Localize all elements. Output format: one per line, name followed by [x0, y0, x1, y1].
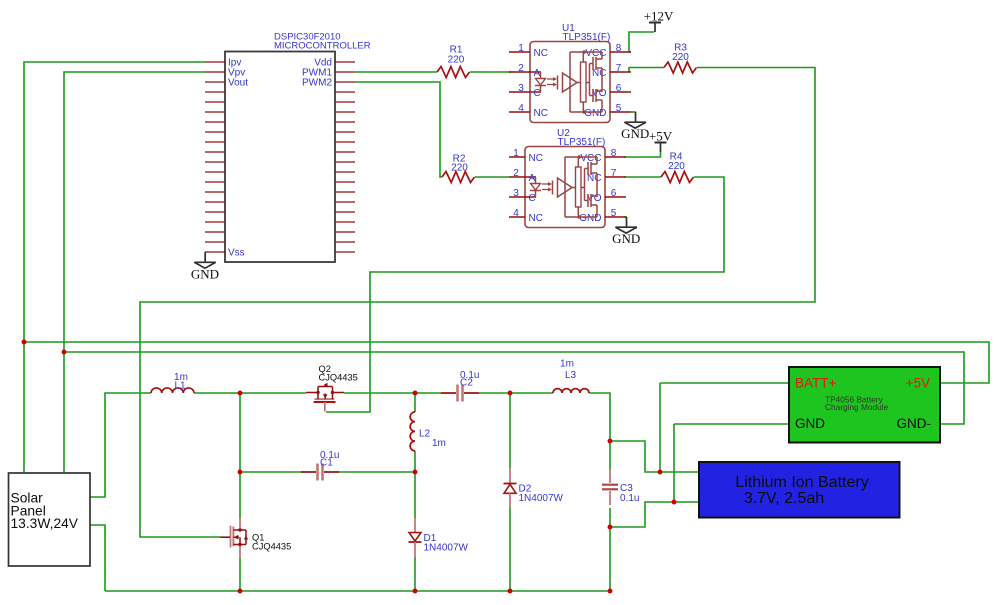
svg-text:L3: L3 [565, 370, 577, 381]
svg-text:C: C [529, 193, 536, 204]
optocoupler U1 TLP351(F) body [530, 42, 610, 123]
+12V power symbol [649, 22, 661, 24]
wire U1 ground stem [635, 112, 637, 122]
wire R1 to U1 pin 2 [470, 71, 511, 73]
wire PWM2 down to R2 [355, 82, 442, 177]
svg-text:1m: 1m [560, 359, 574, 370]
wire GND- net from node at x64 to charging module GND- pin [64, 352, 964, 424]
optocoupler U2 TLP351(F) body [525, 147, 605, 228]
wire L1 to Q2 drain [194, 392, 306, 394]
junction D2 on ground rail [508, 589, 513, 594]
svg-text:6: 6 [616, 83, 622, 94]
wire Ipv to solar panel left column [24, 62, 205, 473]
svg-text:1N4007W: 1N4007W [519, 493, 564, 504]
wire charging module GND down to battery minus node [673, 424, 675, 502]
wire U2 pin 7 to R4 [624, 176, 661, 178]
svg-text:CJQ4435: CJQ4435 [252, 542, 291, 552]
wire U2 pin 5 to ground [624, 216, 627, 218]
U2 left pins 1-4 [509, 157, 536, 217]
U1 right pins 8-5 [610, 52, 631, 112]
wire battery minus branch [610, 502, 700, 527]
inductor L3 [553, 389, 589, 393]
wire GND pin of module [674, 423, 789, 425]
wire U2 pin 8 to +5V symbol [624, 152, 661, 158]
junction Q1 source on ground rail [238, 589, 243, 594]
U2 internal LED [535, 177, 537, 184]
diode D1 [414, 518, 416, 533]
svg-text:1: 1 [513, 148, 519, 159]
resistor R4 [661, 172, 694, 183]
svg-text:C: C [534, 88, 541, 99]
wire R2 to U2 pin 2 [475, 176, 509, 178]
junction node GND- column [62, 350, 67, 355]
svg-text:2: 2 [518, 63, 524, 74]
wire L3 to output node down to C3 [589, 393, 610, 441]
wire U1 pin 7 to R3 [629, 68, 664, 73]
svg-text:TLP351(F): TLP351(F) [563, 32, 611, 43]
wire node x510 down to D2 cathode [509, 393, 511, 468]
wire node x415 to L2 [414, 393, 416, 412]
svg-text:TLP351(F): TLP351(F) [558, 137, 606, 148]
capacitor C1 [316, 464, 319, 481]
wire C2 to node D2 [479, 392, 553, 394]
TP4056 charging module block [789, 367, 940, 443]
wire output node to battery plus [610, 441, 700, 472]
svg-text:6: 6 [611, 188, 617, 199]
U1 output transistors [586, 64, 593, 96]
U2 right pins 8-5 [605, 157, 626, 217]
U1 internal rail and resistor [569, 52, 571, 112]
junction C2/L2 node [413, 391, 418, 396]
svg-text:CJQ4435: CJQ4435 [319, 373, 358, 383]
wire U2 ground stem [626, 217, 628, 227]
capacitor C3 [602, 484, 618, 486]
svg-text:3.7V, 2.5ah: 3.7V, 2.5ah [744, 490, 824, 507]
svg-text:220: 220 [668, 161, 685, 172]
svg-text:GND-: GND- [897, 416, 932, 431]
junction D1 on ground rail [413, 589, 418, 594]
wire node x415 down to D1 [414, 472, 416, 518]
ground symbol below microcontroller [194, 262, 215, 268]
svg-text:1m: 1m [432, 438, 446, 449]
svg-text:7: 7 [616, 63, 622, 74]
junction output node Vout [608, 439, 613, 444]
wire Vss to ground [204, 252, 206, 262]
wire solar panel plus stub up to buck input rail [90, 393, 151, 497]
U1 LED light arrows [547, 79, 553, 85]
U1 left pins 1-4 [509, 52, 541, 112]
inductor L1 [151, 388, 194, 393]
svg-text:220: 220 [448, 55, 465, 66]
svg-text:5: 5 [616, 103, 622, 114]
wire R4 to Q2 gate (long route) [326, 177, 724, 412]
svg-text:220: 220 [451, 163, 468, 174]
svg-text:4: 4 [513, 208, 519, 219]
wire bottom ground rail [105, 590, 610, 592]
svg-text:1: 1 [518, 43, 524, 54]
junction L1/Q2 node [238, 391, 243, 396]
wire +5V net from node at x24 to charging module +5V pin [24, 342, 989, 383]
capacitor C2 [456, 385, 459, 402]
lithium ion battery block [699, 462, 900, 518]
svg-text:GND: GND [584, 108, 606, 119]
svg-text:+5V: +5V [649, 128, 673, 143]
svg-text:GND: GND [191, 266, 219, 281]
svg-text:GND: GND [612, 231, 640, 246]
wire U1 pin 8 to +12V [629, 32, 654, 52]
svg-text:NC: NC [534, 108, 548, 119]
svg-text:PWM2: PWM2 [302, 78, 332, 89]
microcontroller right pins [335, 62, 355, 252]
wire L2 to C1 node [414, 451, 416, 472]
svg-text:GND: GND [579, 213, 601, 224]
svg-text:BATT+: BATT+ [795, 376, 836, 391]
svg-text:2: 2 [513, 168, 519, 179]
inductor L2 [410, 412, 415, 451]
svg-text:Vss: Vss [228, 248, 245, 259]
svg-text:Lithium Ion Battery: Lithium Ion Battery [735, 474, 868, 491]
junction C2/L3/D2 node [508, 391, 513, 396]
junction battery plus node [658, 470, 663, 475]
svg-text:5: 5 [611, 208, 617, 219]
U1 internal LED [540, 72, 542, 79]
svg-text:NC: NC [587, 173, 601, 184]
junction C1/L2/D1 node [413, 470, 418, 475]
U2 internal rail and resistor [564, 157, 566, 217]
svg-text:0.1u: 0.1u [620, 493, 639, 504]
svg-text:L2: L2 [419, 429, 431, 440]
svg-text:NC: NC [529, 153, 543, 164]
resistor R3 [664, 62, 697, 73]
wire solar panel minus stub down to bottom rail [90, 525, 105, 591]
U2 output transistors [581, 169, 588, 201]
svg-text:3: 3 [513, 188, 519, 199]
solar panel block [9, 473, 91, 566]
U2 LED light arrows [542, 184, 548, 190]
svg-text:C1: C1 [320, 458, 333, 469]
junction C1 left node [238, 470, 243, 475]
svg-text:3: 3 [518, 83, 524, 94]
svg-text:VO: VO [587, 193, 602, 204]
diode D2 [509, 468, 511, 483]
U2 photodetector and amplifier [552, 181, 554, 195]
svg-text:A: A [529, 173, 536, 184]
wire Vpv to solar panel second column [64, 72, 205, 473]
junction battery minus node [672, 500, 677, 505]
wire BATT+ pin of module [660, 382, 789, 384]
svg-text:VO: VO [592, 88, 607, 99]
wire Q1 source to bottom rail [239, 558, 241, 591]
wire output node to C3 top [609, 441, 611, 469]
wire PWM1 to R1 [355, 71, 437, 73]
svg-text:8: 8 [611, 148, 617, 159]
U1 photodetector and amplifier [557, 76, 559, 90]
svg-text:C2: C2 [460, 378, 473, 389]
svg-text:GND: GND [795, 416, 825, 431]
wire Q2 source to node C2/L2 [344, 392, 441, 394]
svg-text:+5V: +5V [906, 376, 930, 391]
svg-text:GND: GND [621, 126, 649, 141]
svg-text:MICROCONTROLLER: MICROCONTROLLER [274, 40, 371, 51]
svg-text:NC: NC [534, 48, 548, 59]
wire U1 pin 5 to ground [631, 111, 636, 113]
svg-text:Charging Module: Charging Module [825, 402, 889, 412]
svg-text:4: 4 [518, 103, 524, 114]
svg-text:+12V: +12V [644, 8, 674, 23]
microcontroller left pins [205, 62, 225, 252]
resistor R1 [437, 67, 470, 78]
wire C3 bottom down to bottom rail [609, 508, 611, 591]
wire node to C1 left [240, 471, 302, 473]
transistor Q2 CJQ4435 [306, 392, 318, 394]
wire charging module BATT+ down to battery plus node [659, 383, 661, 472]
wire C1 right to node x415 [338, 471, 415, 473]
wire D1 cathode to bottom rail [414, 557, 416, 591]
svg-text:220: 220 [672, 52, 689, 63]
ground symbol below U1 [625, 122, 646, 128]
transistor Q1 CJQ4435 [239, 518, 241, 530]
svg-text:13.3W,24V: 13.3W,24V [11, 516, 79, 531]
resistor R2 [442, 172, 475, 183]
svg-text:A: A [534, 68, 541, 79]
wire node x240 vertical through C1 junction to Q1 drain [239, 393, 241, 518]
svg-text:1N4007W: 1N4007W [424, 543, 469, 554]
wire R3 to Q1 gate (long route) [140, 68, 815, 538]
ground symbol below U2 [616, 227, 637, 233]
svg-text:NC: NC [592, 68, 606, 79]
svg-text:Vout: Vout [228, 78, 248, 89]
svg-text:NC: NC [529, 213, 543, 224]
junction node +5V column [22, 340, 27, 345]
junction C3 on ground rail [608, 589, 613, 594]
wire D2 anode to bottom rail [509, 507, 511, 591]
+5V power symbol [655, 142, 667, 144]
svg-text:L1: L1 [174, 381, 186, 392]
junction C3 bottom node [608, 525, 613, 530]
svg-text:7: 7 [611, 168, 617, 179]
microcontroller U3 DSPIC30F2010 body [225, 52, 335, 263]
svg-text:8: 8 [616, 43, 622, 54]
